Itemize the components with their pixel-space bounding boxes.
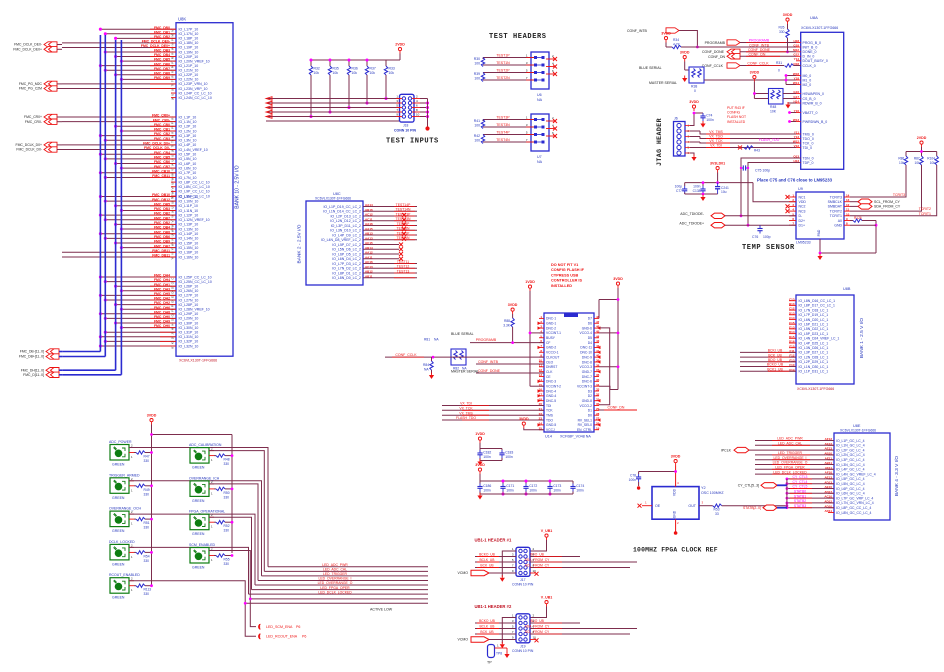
svg-text:FMC_DH8: FMC_DH8 (154, 310, 170, 314)
wire J18 pin 8 to tie (412, 111, 420, 113)
svg-text:RV_SEL1: RV_SEL1 (578, 418, 593, 422)
svg-text:3VDD: 3VDD (689, 100, 699, 104)
wire CY_CTL4 U8E (787, 483, 834, 485)
wire R82 to CLKOUT (385, 356, 544, 358)
svg-text:TCRIT3: TCRIT3 (893, 193, 905, 197)
svg-text:IO_L18N_10: IO_L18N_10 (179, 41, 199, 45)
wire LED_ADC_CAL U8E (755, 444, 834, 446)
no-connect X row 12 (399, 257, 403, 261)
svg-text:R86: R86 (898, 157, 904, 161)
svg-text:R9: R9 (171, 51, 175, 55)
svg-text:TEST13: TEST13 (397, 269, 410, 273)
capacitor C186 100n (477, 484, 491, 493)
wire OVERRANGE_ICH resistor to 3VDD (225, 488, 232, 490)
ground dot C78 (637, 486, 640, 489)
wire C78 bottom (638, 482, 640, 486)
hex symbol IPCLK (734, 447, 749, 452)
wire TEST3N (483, 126, 534, 128)
junction R88 CF (511, 341, 514, 344)
svg-text:LED_ADC_PWR: LED_ADC_PWR (322, 563, 348, 567)
led DCLK_LOCKED pin1 stub (129, 551, 134, 553)
wire net at pin IO_L4P_10 (62, 144, 176, 146)
svg-text:IO_L6P_D5_LC_2: IO_L6P_D5_LC_2 (332, 252, 361, 256)
svg-text:TCRIT2: TCRIT2 (830, 209, 842, 213)
svg-text:XC6VLX130T-1FFG666: XC6VLX130T-1FFG666 (315, 197, 351, 201)
svg-text:C75 100p: C75 100p (755, 168, 770, 172)
svg-text:VCCO-2: VCCO-2 (580, 404, 593, 408)
resistor R84 vertical left (431, 357, 433, 361)
offpage symbol FMC_DH[11..0] (46, 368, 59, 373)
svg-text:IO_L1P_D19_CC_LC_2: IO_L1P_D19_CC_LC_2 (323, 205, 361, 209)
svg-text:SCL_FROM_CY: SCL_FROM_CY (874, 200, 901, 204)
svg-text:CY_CTL[5..3]: CY_CTL[5..3] (738, 484, 759, 488)
resistor R43 (740, 147, 744, 149)
svg-text:FMC_DCLK_DE0-: FMC_DCLK_DE0- (142, 39, 170, 43)
svg-text:R7: R7 (171, 69, 175, 73)
svg-text:FMC_DCLK_D0+: FMC_DCLK_D0+ (16, 143, 42, 147)
svg-text:GREEN: GREEN (112, 463, 125, 467)
svg-text:IO_L1N_GC_LC_4: IO_L1N_GC_LC_4 (836, 444, 865, 448)
svg-text:VCCO-4: VCCO-4 (580, 331, 593, 335)
svg-text:DONE_0: DONE_0 (803, 50, 817, 54)
svg-text:100MHZ FPGA CLOCK REF: 100MHZ FPGA CLOCK REF (633, 547, 718, 554)
led RCOUT_ENABLED pin1 stub (129, 585, 134, 587)
svg-text:3VDD: 3VDD (613, 277, 623, 281)
svg-text:TDO_0: TDO_0 (803, 137, 814, 141)
capacitor C74 100n (700, 113, 713, 122)
svg-text:G8: G8 (171, 313, 175, 317)
svg-text:FPGA_OPERATIONAL: FPGA_OPERATIONAL (189, 510, 225, 514)
wire RDWR_B (788, 102, 796, 104)
resistor R84 symbol (430, 361, 433, 370)
wire M1 from R38 (704, 79, 786, 81)
svg-text:FMC_DB2: FMC_DB2 (154, 221, 170, 225)
terminal arrow test input 2 (266, 101, 272, 105)
resistor symbol R51 (136, 517, 145, 520)
svg-text:PROGRAMB: PROGRAMB (476, 338, 497, 342)
hex symbol SCL_FROM_CY (858, 199, 872, 204)
svg-text:CY_CTL5: CY_CTL5 (793, 485, 808, 489)
svg-text:D7: D7 (588, 317, 592, 321)
svg-text:IO_L3P_10: IO_L3P_10 (179, 134, 197, 138)
resistor symbol R39 (481, 73, 484, 82)
svg-text:VX_TMS: VX_TMS (459, 411, 473, 415)
svg-text:Y8: Y8 (171, 256, 175, 260)
svg-text:FMC_DCLK_D0-: FMC_DCLK_D0- (144, 146, 170, 150)
svg-text:IO_L2N_D28_LC_1: IO_L2N_D28_LC_1 (799, 355, 829, 359)
wire FMC_D[11..0] bus stub (59, 374, 62, 376)
svg-text:IO_L5N_D22_LC_1: IO_L5N_D22_LC_1 (799, 327, 829, 331)
junction DONE pullup (786, 50, 789, 53)
wire cap drop C174 (572, 481, 574, 484)
svg-text:IO_L15N_10: IO_L15N_10 (179, 246, 199, 250)
svg-text:FMC_DB4: FMC_DB4 (154, 226, 170, 230)
svg-text:NA: NA (462, 367, 467, 371)
svg-text:SDA_FROM_CY: SDA_FROM_CY (525, 625, 551, 629)
svg-text:R8: R8 (171, 55, 175, 59)
svg-text:FMC_DB9: FMC_DB9 (154, 76, 170, 80)
svg-text:IO_L20N_VREF_10: IO_L20N_VREF_10 (179, 59, 210, 63)
ic U14 box (544, 313, 594, 432)
wire TEST row 8 (363, 239, 417, 241)
svg-text:IO_L1N_D14_CC_LC_2: IO_L1N_D14_CC_LC_2 (323, 210, 361, 214)
svg-text:DNC-1: DNC-1 (546, 317, 556, 321)
svg-text:PROG_B_0: PROG_B_0 (803, 41, 822, 45)
svg-text:IO_L25N_CC_LC_10: IO_L25N_CC_LC_10 (179, 280, 212, 284)
svg-text:IO_L3N_D10_LC_2: IO_L3N_D10_LC_2 (330, 229, 361, 233)
wire 3VDD to R48 (753, 82, 755, 99)
wire resistor bottom R35 (329, 75, 331, 112)
svg-text:TDI: TDI (546, 404, 551, 408)
wire GND-6 right (599, 328, 610, 405)
capacitor C182 100n (477, 450, 491, 459)
svg-text:IO_L26N_10: IO_L26N_10 (179, 289, 199, 293)
wire FMC_DCLK_D0+ to bank (57, 144, 62, 146)
svg-text:FMC_CB3: FMC_CB3 (154, 137, 170, 141)
wire RCOUT_ENABLED signal (129, 581, 245, 604)
svg-text:V9: V9 (171, 237, 175, 241)
resistor pack R38 box (689, 67, 704, 83)
led SCM_ENABLED pin1 stub (209, 555, 214, 557)
wire FMC_DH1 (116, 285, 176, 287)
svg-text:R39: R39 (474, 72, 480, 76)
svg-text:DNRST: DNRST (546, 365, 557, 369)
wire CONF_CCLK (740, 65, 784, 67)
svg-text:INIT_B_0: INIT_B_0 (803, 45, 818, 49)
wire FMC_DB7 (105, 69, 176, 71)
svg-text:XCF08P_VO48 NA: XCF08P_VO48 NA (560, 435, 591, 439)
svg-text:3VDD: 3VDD (680, 50, 690, 54)
wire FMC_DB9 (121, 78, 176, 80)
svg-text:IO_L4P_GC_LC_4: IO_L4P_GC_LC_4 (836, 468, 865, 472)
svg-text:VBATT_0: VBATT_0 (803, 111, 818, 115)
wire FMC_CB4 (100, 153, 176, 155)
wire led bundle row 6 (252, 589, 429, 591)
resistor R55 330 (214, 555, 216, 557)
svg-text:3VDD: 3VDD (508, 303, 518, 307)
wire 3VDD to VCCJ (524, 428, 544, 430)
wire led bundle row 8 (250, 598, 428, 600)
junction STATB2 (786, 502, 789, 505)
resistor pack R48 box (769, 89, 784, 105)
svg-text:VCCO-1: VCCO-1 (546, 351, 559, 355)
svg-text:C171: C171 (506, 484, 514, 488)
wire VCCO-3 (599, 366, 618, 368)
svg-text:Place C75 and C76 close to LM9: Place C75 and C76 close to LM95233 (757, 178, 833, 183)
svg-text:IO_L2P_GC_LC_4: IO_L2P_GC_LC_4 (836, 448, 865, 452)
wire clock to U8E (722, 505, 787, 507)
svg-text:SDA_FROM_CY: SDA_FROM_CY (874, 205, 901, 209)
junction 2VDD rail (920, 150, 923, 153)
wire cap bottom C172 (525, 492, 527, 495)
svg-text:R8: R8 (171, 116, 175, 120)
wire BCLK_UB J17 (475, 561, 516, 563)
svg-text:LED_DCLK_LOCKED: LED_DCLK_LOCKED (318, 590, 352, 594)
svg-text:R126: R126 (854, 216, 862, 220)
wire led bundle row 5 (255, 584, 428, 586)
svg-text:D1+: D1+ (799, 224, 806, 228)
svg-text:IO_L3N_D26_LC_1: IO_L3N_D26_LC_1 (799, 346, 829, 350)
wire OVERRANGE_ICH signal (209, 484, 258, 581)
terminal arrow test input 3 (266, 106, 272, 110)
svg-text:GREEN: GREEN (192, 566, 205, 570)
wire M0 (786, 75, 796, 77)
resistor R32 10k (309, 66, 320, 75)
wire resistor top R36 (348, 60, 350, 66)
svg-text:IO_L10N_10: IO_L10N_10 (179, 199, 199, 203)
svg-text:CONF_CCLK: CONF_CCLK (747, 61, 769, 65)
svg-text:FMC_DB7: FMC_DB7 (154, 244, 170, 248)
svg-text:M0_0: M0_0 (803, 74, 812, 78)
svg-text:CONFIG: CONFIG (727, 111, 741, 115)
svg-text:LED_FPGA_OPER: LED_FPGA_OPER (320, 586, 350, 590)
svg-text:U8: U8 (171, 200, 175, 204)
svg-text:FMC_CR0-: FMC_CR0- (153, 118, 170, 122)
svg-text:C182: C182 (483, 451, 491, 455)
wire CONF_DONE to pin (740, 51, 796, 53)
wire bus tap IO_L31N_10 (100, 336, 176, 338)
svg-text:BLUE SERIAL: BLUE SERIAL (639, 66, 662, 70)
svg-text:K7: K7 (171, 345, 175, 349)
svg-text:LED_ADC_CAL: LED_ADC_CAL (323, 568, 347, 572)
svg-text:3VDD: 3VDD (671, 454, 681, 458)
junction PWRDWN (788, 120, 791, 123)
junction VCCO-4 (617, 332, 620, 335)
connector J18 CONN 10 PIN (400, 94, 415, 122)
svg-text:ADC_TDIODE+: ADC_TDIODE+ (679, 221, 704, 225)
power symbol 3VDD R88 (508, 303, 518, 314)
svg-text:R55: R55 (224, 558, 230, 562)
wire C74 tap (694, 112, 703, 114)
svg-text:VDD: VDD (799, 200, 807, 204)
svg-text:3VDD: 3VDD (750, 70, 760, 74)
svg-text:LED_FPGA_OPER: LED_FPGA_OPER (775, 466, 805, 470)
power symbol 2VDD temp (917, 136, 927, 147)
svg-text:IO_L12P_10: IO_L12P_10 (179, 213, 199, 217)
svg-text:LED_ADC_PWR: LED_ADC_PWR (777, 437, 803, 441)
wire FMC_CB0 (116, 125, 176, 127)
svg-text:NC3: NC3 (799, 209, 806, 213)
svg-text:GND-7: GND-7 (582, 370, 592, 374)
svg-text:100p: 100p (675, 185, 683, 189)
svg-text:BANK 10 - 2.5V I/O: BANK 10 - 2.5V I/O (235, 165, 241, 208)
resistor symbol R55 (216, 554, 225, 557)
svg-text:FMC_DCLK_D0-: FMC_DCLK_D0- (16, 148, 42, 152)
wire TEST row 13 (363, 263, 417, 265)
svg-text:FMC_CB10: FMC_CB10 (152, 169, 170, 173)
ground caps rail (700, 195, 705, 202)
wire FMC_DB6 (100, 65, 176, 67)
svg-text:IO_L7P_GC_VRP_LC_4: IO_L7P_GC_VRP_LC_4 (836, 496, 873, 500)
capacitor C183 100n (499, 450, 513, 459)
svg-text:IO_L3P_D27_LC_1: IO_L3P_D27_LC_1 (799, 351, 829, 355)
svg-text:R30: R30 (474, 57, 480, 61)
svg-text:R82: R82 (453, 367, 459, 371)
led ADC_POWER pin2 stub (129, 447, 134, 449)
no-connect X U7 pin 6 (553, 134, 557, 138)
svg-text:UB1-1 HEADER #1: UB1-1 HEADER #1 (475, 538, 512, 543)
wire SCM_ENABLED resistor to 3VDD (225, 555, 232, 557)
resistor symbol R48 (216, 454, 225, 457)
svg-text:STATB1: STATB1 (794, 494, 806, 498)
svg-text:D8: D8 (171, 290, 175, 294)
svg-text:IO_L5N_GC_LC_4: IO_L5N_GC_LC_4 (836, 482, 865, 486)
resistor R87 10k (920, 156, 923, 165)
wire J18 pin 7 stub (396, 111, 402, 113)
svg-text:U7: U7 (537, 155, 542, 159)
svg-text:XC6VLX130T-1FFG666: XC6VLX130T-1FFG666 (797, 387, 834, 391)
wire TEST row 5 (363, 225, 417, 227)
svg-text:FMC_CB0: FMC_CB0 (154, 123, 170, 127)
svg-text:VCCINT-3: VCCINT-3 (577, 384, 592, 388)
wire BCKI_UB (740, 351, 796, 353)
svg-text:NC2: NC2 (799, 205, 806, 209)
wire BCK_UB J17 (475, 567, 516, 569)
svg-text:U7: U7 (171, 92, 175, 96)
junction OVERRANGE_OCH 3VDD (150, 518, 153, 521)
testpoint TP8 (488, 645, 495, 658)
junction C138 top (702, 181, 705, 184)
junction C78 tap (674, 470, 677, 473)
svg-text:OSC 100MHZ: OSC 100MHZ (701, 491, 724, 495)
led DCLK_LOCKED pin2 stub (129, 546, 134, 548)
svg-text:R104: R104 (927, 157, 935, 161)
wire FMC_CB6 (116, 163, 176, 165)
svg-text:IO_L16P_10: IO_L16P_10 (179, 251, 199, 255)
hex symbol SDA_FROM_CY (858, 204, 872, 209)
svg-text:LM95233: LM95233 (796, 241, 811, 245)
wire STATB0 U8E (787, 492, 834, 494)
wire led bundle row 3 (262, 575, 429, 577)
no-connect NC3 (786, 209, 790, 213)
led SCM_ENABLED pin2 stub (209, 550, 214, 552)
junction VBATT (788, 111, 791, 114)
svg-text:FMC_DH2: FMC_DH2 (154, 297, 170, 301)
wire PAD to gnd (820, 239, 876, 253)
svg-text:FMC_DB5: FMC_DB5 (154, 202, 170, 206)
wire cap bottom C186 (479, 492, 481, 495)
svg-text:DNC-11: DNC-11 (580, 346, 592, 350)
svg-text:FMC_DH[11..0]: FMC_DH[11..0] (21, 368, 44, 372)
svg-text:PROGRAMB: PROGRAMB (749, 39, 770, 43)
svg-text:IO_L8P_D1_LC_2: IO_L8P_D1_LC_2 (332, 271, 361, 275)
svg-text:OE: OE (655, 504, 661, 508)
wire cap C77 drop (684, 183, 686, 186)
svg-text:R43: R43 (754, 149, 760, 153)
wire R34 to INIT_B (681, 46, 796, 48)
svg-text:IO_L22P_10: IO_L22P_10 (179, 73, 199, 77)
svg-text:NA: NA (537, 98, 543, 102)
wire OVERRANGE_OCH signal (129, 514, 255, 585)
wire cap drop C186 (479, 481, 481, 484)
wire R104 top (936, 152, 938, 157)
junction FPGA_OPERATIONAL 3VDD (231, 521, 234, 524)
svg-text:0: 0 (694, 89, 696, 93)
svg-text:2VDD: 2VDD (395, 42, 405, 46)
svg-text:C172: C172 (529, 484, 537, 488)
svg-text:CONF_DONE: CONF_DONE (748, 48, 771, 52)
svg-text:IO_L1N_D30_LC_1: IO_L1N_D30_LC_1 (799, 365, 829, 369)
wire led bundle row 1 (268, 566, 428, 568)
svg-text:FMC_CB2: FMC_CB2 (154, 132, 170, 136)
junction VCCO-3 (617, 365, 620, 368)
ground temp sensor (817, 254, 822, 261)
wire FMC_DH[11..0] bus stub (59, 369, 62, 371)
svg-text:R81: R81 (424, 338, 430, 342)
svg-text:BCK_UB: BCK_UB (480, 630, 494, 634)
svg-text:CONN 10 PIN: CONN 10 PIN (512, 583, 534, 587)
wire TEST4P (483, 134, 534, 136)
wire TDN to thermal diode (741, 158, 801, 216)
wire LED_ADC_PWR U8E (755, 440, 834, 442)
svg-text:FMC_DB8: FMC_DB8 (154, 71, 170, 75)
svg-text:C7: C7 (171, 276, 175, 280)
svg-text:NC1: NC1 (799, 195, 806, 199)
svg-text:IO_L31P_10: IO_L31P_10 (179, 331, 199, 335)
svg-text:Y2: Y2 (701, 486, 706, 490)
svg-text:IO_L7N_10: IO_L7N_10 (179, 176, 197, 180)
wire J18 tie vertical (427, 99, 429, 127)
svg-text:FMC_DH3: FMC_DH3 (154, 287, 170, 291)
junction TDP thermal (747, 224, 750, 227)
wire top rail to box (599, 299, 618, 301)
svg-text:R41: R41 (474, 119, 480, 123)
svg-text:R88: R88 (504, 319, 510, 323)
svg-text:P8: P8 (171, 37, 175, 41)
wire ADC_POWER signal (129, 448, 268, 567)
svg-text:INSTALLED: INSTALLED (551, 284, 572, 288)
junction PAD gnd (819, 252, 822, 255)
led TRIGGER_ARMED pin2 stub (129, 480, 134, 482)
wire VX_TDO (690, 136, 700, 138)
wire ADC_CALIBRATION signal (209, 451, 264, 572)
svg-text:ADC_POWER: ADC_POWER (109, 440, 132, 444)
svg-text:GREEN: GREEN (112, 496, 125, 500)
resistor R52 330 (214, 521, 216, 523)
svg-text:LED_SCM_ENA: LED_SCM_ENA (266, 625, 293, 629)
svg-text:IO_L4N_D24_VREF_LC_1: IO_L4N_D24_VREF_LC_1 (799, 337, 840, 341)
svg-text:D3: D3 (588, 389, 592, 393)
wire FMC_DH8 (100, 313, 176, 315)
wire FPGA_OPERATIONAL signal (209, 517, 252, 589)
svg-text:TEST4P: TEST4P (496, 130, 510, 134)
svg-text:XC6VLX130T-1FFG666: XC6VLX130T-1FFG666 (801, 26, 838, 30)
power symbol 3VDD R34 (661, 31, 671, 42)
svg-text:TEST3P: TEST3P (496, 115, 510, 119)
wire net at pin IO_L23P_VRN_10 (62, 83, 176, 85)
wire TP8 to ground (506, 648, 508, 653)
svg-text:JTAG HEADER: JTAG HEADER (656, 118, 663, 166)
wire 3VDD to oscillator (675, 466, 677, 487)
svg-text:IO_L7P_D19_LC_1: IO_L7P_D19_LC_1 (799, 313, 829, 317)
wire FMC_DH3 (121, 290, 176, 292)
svg-text:IO_L8N_CC_LC_10: IO_L8N_CC_LC_10 (179, 185, 210, 189)
svg-text:IO_L9P_CC_LC_10: IO_L9P_CC_LC_10 (179, 190, 210, 194)
resistor R82b (460, 351, 463, 360)
svg-text:FMC_DB9: FMC_DB9 (154, 240, 170, 244)
svg-text:VCCINT-1: VCCINT-1 (546, 331, 561, 335)
wire FMC_PG_C2M to bank (57, 88, 62, 90)
wire bus tap IO_L31P_10 (105, 331, 176, 333)
struck net X row 4 (402, 218, 406, 222)
wire R31 to CCLK pin (794, 65, 801, 67)
terminal LED_RCOUT_ENA (259, 634, 261, 639)
pin 10 no connect J19 (530, 639, 536, 641)
wire J18 pin 5 stub (396, 107, 402, 109)
svg-text:100: 100 (474, 139, 480, 143)
offpage symbol FMC_DCLK_DE0+ (44, 47, 57, 52)
svg-text:IO_L11N_10: IO_L11N_10 (179, 209, 199, 213)
